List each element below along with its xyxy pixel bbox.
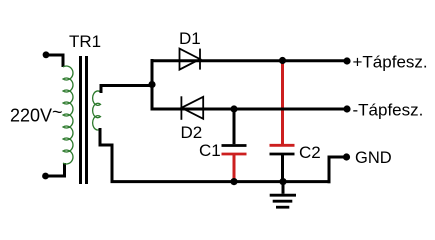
junction dot C1 bottom bbox=[230, 178, 237, 185]
diode D2 bbox=[181, 96, 203, 120]
svg-text:+Tápfesz.: +Tápfesz. bbox=[353, 52, 428, 71]
wire: second rail crossing redraw bbox=[270, 108, 295, 111]
terminal dot +Tapfesz bbox=[343, 57, 350, 64]
svg-text:D1: D1 bbox=[179, 29, 201, 48]
transformer TR1 core line 1 bbox=[79, 56, 82, 184]
terminal dot GND bbox=[343, 153, 350, 160]
diode D1 bbox=[180, 49, 201, 70]
wire: second rail (- rail) bbox=[151, 108, 348, 111]
capacitor C1 bottom lead (red) bbox=[233, 154, 236, 182]
junction dot ground bbox=[279, 178, 286, 185]
capacitor C2 bottom plate bbox=[270, 153, 295, 156]
capacitor C2 top lead (red) bbox=[281, 61, 284, 146]
capacitor C2 bottom lead bbox=[281, 154, 284, 182]
transformer TR1 core line 2 bbox=[85, 56, 88, 184]
svg-text:220V~: 220V~ bbox=[10, 102, 63, 126]
terminal dot: 220V bottom bbox=[42, 173, 49, 180]
terminal dot: 220V top bbox=[43, 51, 50, 58]
svg-text:D2: D2 bbox=[181, 123, 203, 142]
terminal dot -Tapfesz bbox=[343, 105, 350, 112]
svg-text:-Tápfesz.: -Tápfesz. bbox=[353, 100, 424, 119]
junction dot C1 top bbox=[230, 105, 237, 112]
capacitor C1 top plate bbox=[222, 144, 247, 147]
ground symbol bbox=[270, 182, 296, 208]
wire: secondary bottom lead bbox=[100, 128, 112, 182]
wire: primary top lead bbox=[46, 55, 63, 67]
svg-text:TR1: TR1 bbox=[69, 32, 101, 51]
wire: secondary top lead to node A bbox=[101, 86, 152, 94]
capacitor C1 top lead bbox=[233, 109, 236, 144]
junction dot C2 top bbox=[279, 57, 286, 64]
svg-text:GND: GND bbox=[355, 149, 392, 167]
wire: bottom rail (GND rail) bbox=[111, 180, 331, 183]
svg-text:C2: C2 bbox=[299, 143, 321, 162]
capacitor C1 bottom plate (red) bbox=[222, 153, 247, 156]
wire: top rail (+ rail) bbox=[151, 59, 348, 62]
node A junction dot bbox=[148, 81, 155, 88]
svg-text:C1: C1 bbox=[199, 141, 221, 160]
wire: GND riser bbox=[329, 157, 346, 183]
transformer TR1 secondary winding bbox=[93, 91, 101, 130]
wire: primary bottom lead bbox=[45, 163, 65, 176]
wire: left vertical between rails bbox=[151, 59, 154, 111]
capacitor C2 top plate (red) bbox=[270, 144, 295, 147]
transformer TR1 primary winding bbox=[63, 66, 73, 164]
